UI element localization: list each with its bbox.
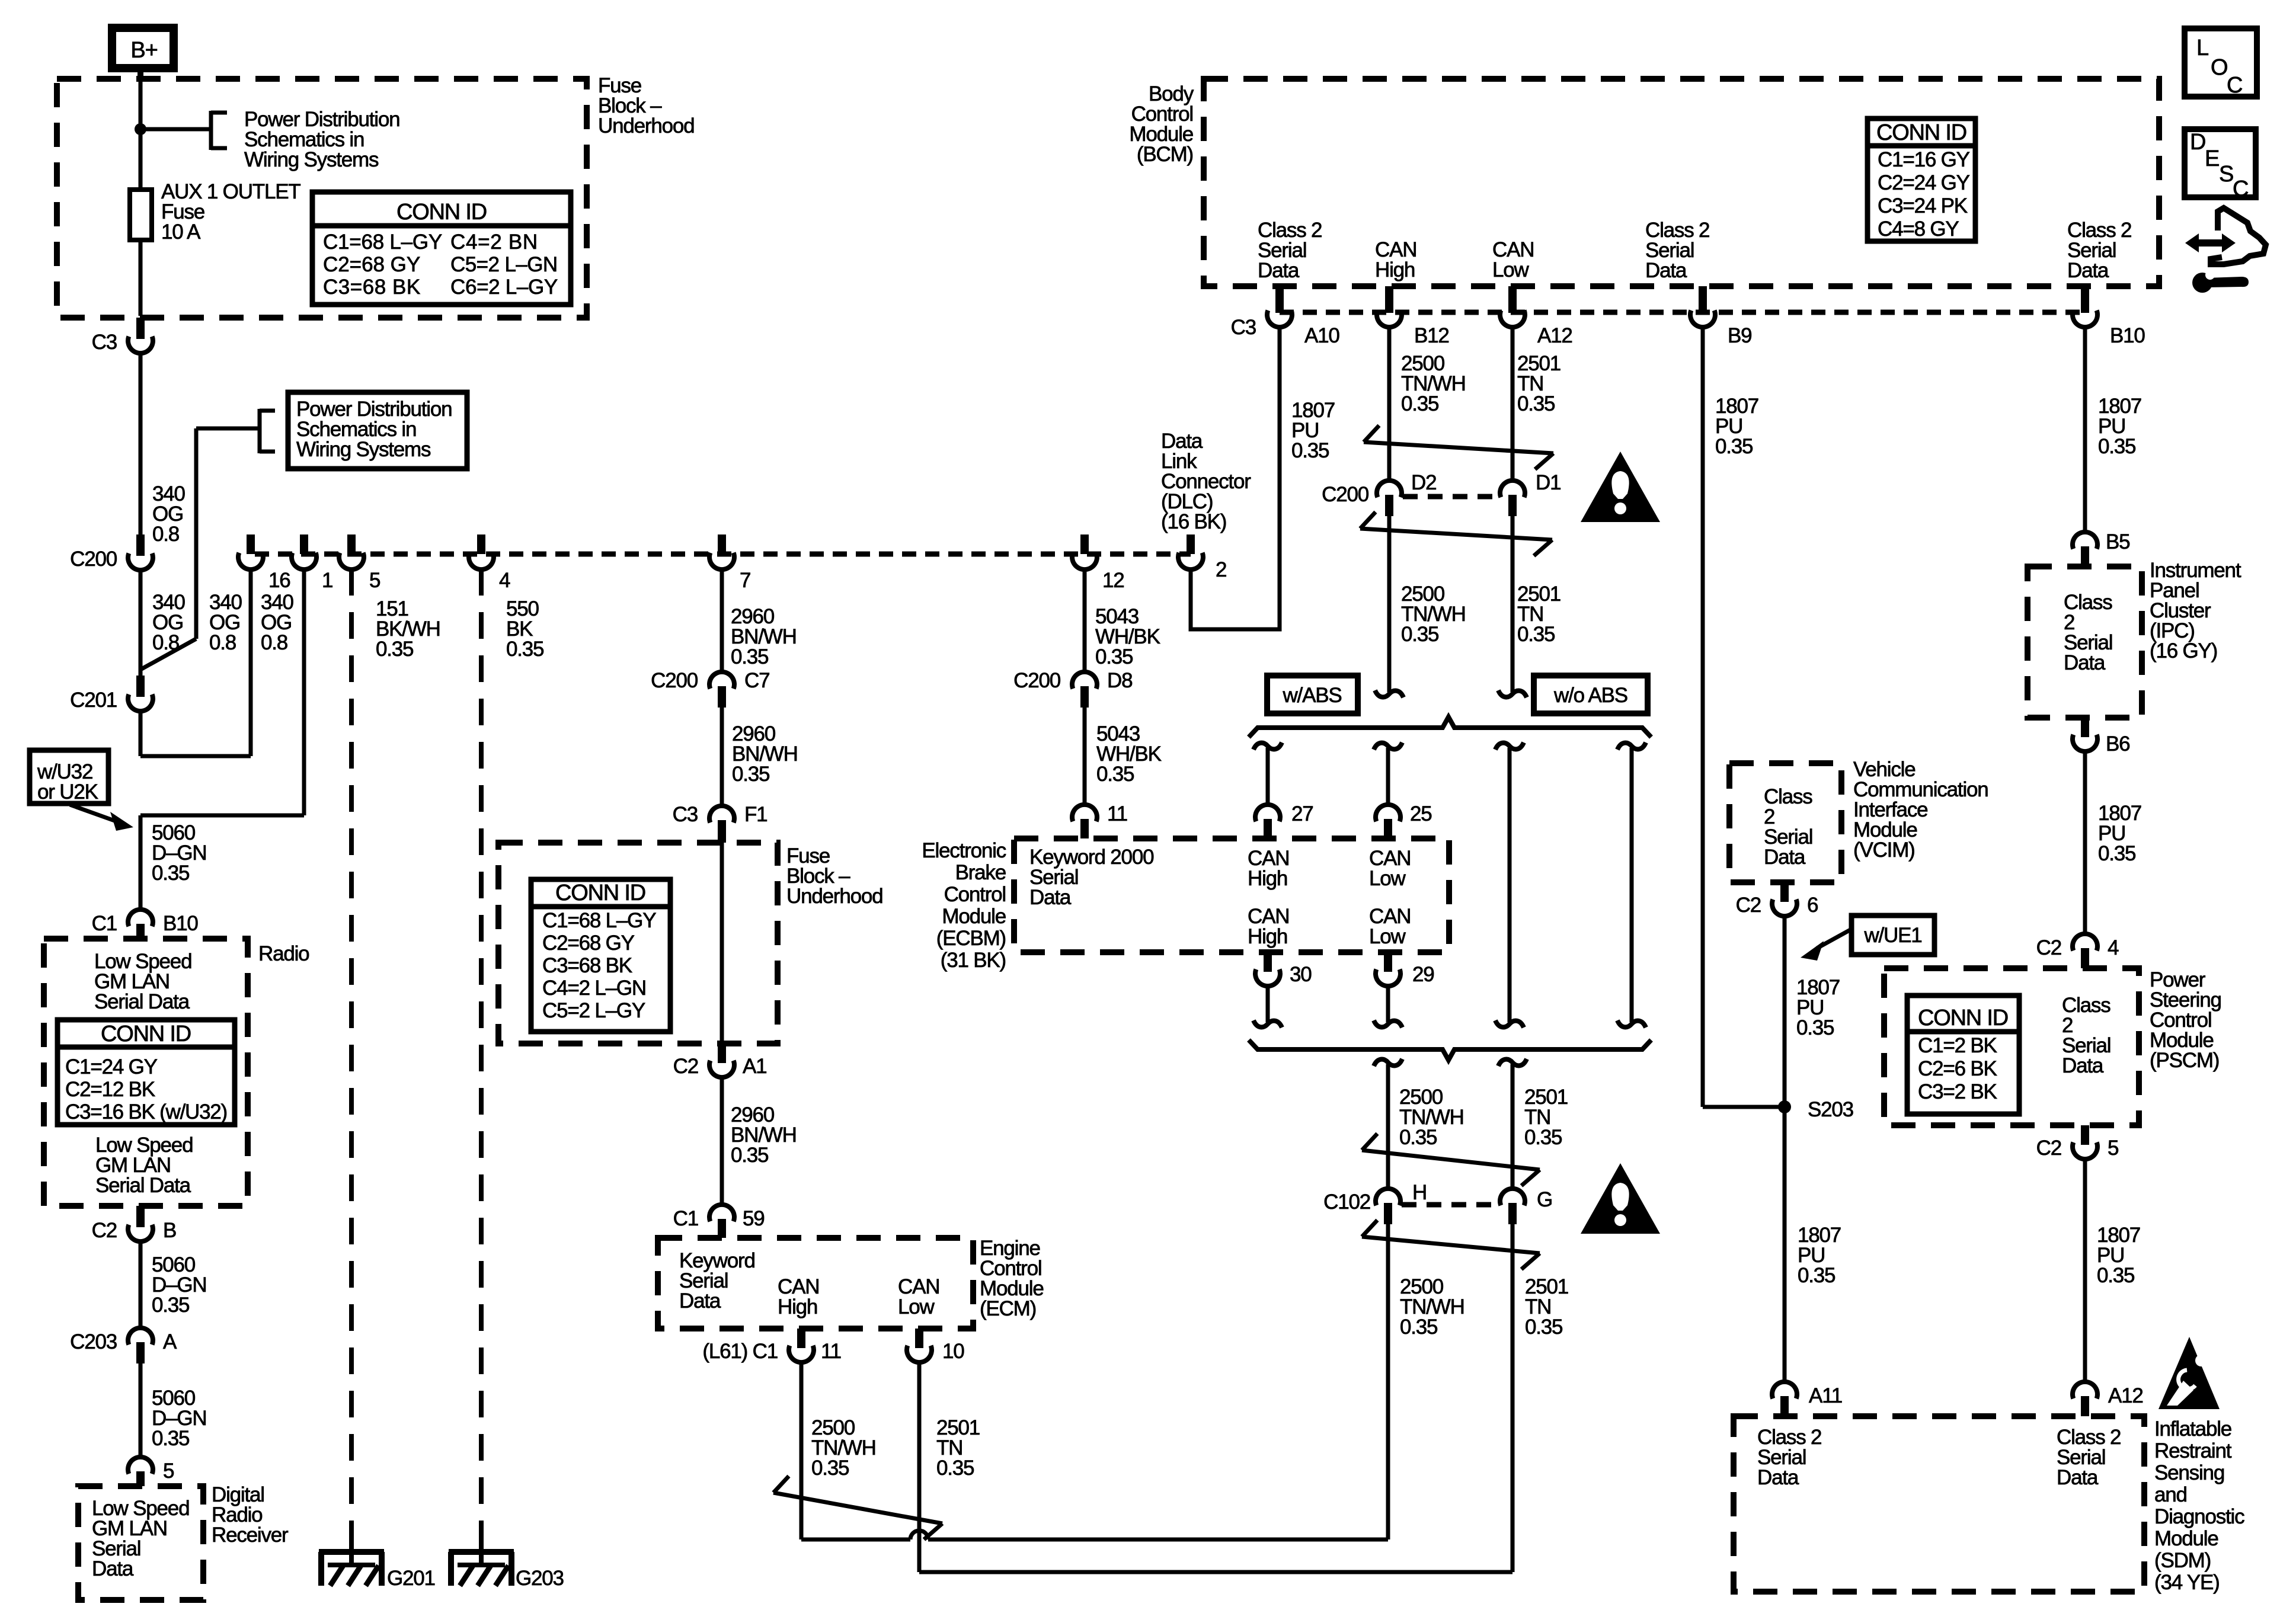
svg-text:0.35: 0.35 [152, 862, 189, 885]
svg-text:B5: B5 [2106, 530, 2129, 553]
svg-text:C102: C102 [1323, 1190, 1370, 1214]
svg-text:B12: B12 [1414, 324, 1449, 347]
svg-text:(ECM): (ECM) [980, 1297, 1036, 1320]
svg-text:30: 30 [1290, 963, 1312, 986]
svg-text:16: 16 [268, 569, 290, 592]
svg-text:(L61) C1: (L61) C1 [702, 1340, 778, 1363]
svg-text:C2: C2 [673, 1055, 698, 1078]
svg-text:D1: D1 [1536, 471, 1560, 494]
svg-text:Serial Data: Serial Data [94, 990, 190, 1013]
svg-text:Data: Data [1757, 1466, 1799, 1489]
svg-text:C1=24 GY: C1=24 GY [65, 1055, 158, 1078]
svg-text:0.35: 0.35 [811, 1457, 849, 1480]
svg-text:59: 59 [743, 1207, 765, 1230]
svg-text:0.35: 0.35 [1096, 763, 1134, 786]
svg-text:High: High [1375, 258, 1415, 281]
svg-text:or U2K: or U2K [37, 780, 98, 804]
svg-text:1: 1 [322, 569, 332, 592]
svg-text:High: High [1248, 925, 1287, 948]
svg-text:C3=68 BK: C3=68 BK [542, 954, 632, 977]
svg-text:C5=2 L–GY: C5=2 L–GY [542, 999, 645, 1022]
svg-text:G203: G203 [516, 1567, 564, 1590]
svg-text:0.35: 0.35 [2098, 842, 2135, 865]
svg-text:Control: Control [944, 883, 1006, 906]
svg-text:11: 11 [1107, 802, 1127, 825]
svg-text:(VCIM): (VCIM) [1853, 838, 1915, 862]
svg-text:C1: C1 [673, 1207, 698, 1230]
svg-text:4: 4 [2108, 936, 2119, 959]
svg-text:Inflatable: Inflatable [2154, 1417, 2231, 1441]
svg-text:C3: C3 [673, 803, 698, 826]
svg-text:S203: S203 [1808, 1098, 1853, 1121]
svg-text:C200: C200 [70, 548, 117, 571]
svg-text:C200: C200 [1013, 669, 1061, 692]
svg-text:0.35: 0.35 [1517, 623, 1555, 646]
svg-text:10: 10 [942, 1340, 964, 1363]
svg-text:C6=2 L–GY: C6=2 L–GY [450, 276, 558, 299]
svg-text:Receiver: Receiver [212, 1523, 289, 1547]
svg-text:(16 BK): (16 BK) [1161, 510, 1226, 533]
svg-text:C2=68 GY: C2=68 GY [542, 932, 635, 955]
svg-text:C4=2 L–GN: C4=2 L–GN [542, 977, 646, 1000]
svg-text:Data: Data [2067, 259, 2109, 282]
svg-text:Data: Data [2064, 651, 2106, 674]
svg-text:0.8: 0.8 [152, 631, 179, 654]
svg-text:S: S [2219, 162, 2233, 187]
svg-text:Module: Module [942, 905, 1006, 928]
svg-text:and: and [2154, 1483, 2187, 1506]
svg-text:(SDM): (SDM) [2154, 1549, 2211, 1572]
svg-text:A12: A12 [2108, 1384, 2143, 1407]
svg-text:A11: A11 [1809, 1384, 1842, 1407]
svg-text:Diagnostic: Diagnostic [2154, 1505, 2244, 1528]
svg-text:C2: C2 [2036, 1137, 2061, 1160]
svg-text:0.35: 0.35 [506, 638, 543, 661]
svg-text:C203: C203 [70, 1330, 117, 1353]
svg-text:w/ABS: w/ABS [1282, 684, 1341, 707]
svg-text:Data: Data [1764, 846, 1806, 869]
svg-text:0.35: 0.35 [152, 1427, 189, 1450]
svg-text:B+: B+ [130, 38, 157, 63]
svg-text:(PSCM): (PSCM) [2150, 1049, 2219, 1072]
svg-text:C3=2 BK: C3=2 BK [1918, 1080, 1997, 1103]
svg-text:Serial Data: Serial Data [95, 1174, 191, 1197]
svg-text:2: 2 [1216, 558, 1226, 581]
svg-text:0.8: 0.8 [152, 523, 179, 546]
svg-text:0.8: 0.8 [261, 631, 287, 654]
svg-text:0.35: 0.35 [1291, 439, 1329, 462]
svg-text:C1: C1 [92, 912, 117, 935]
svg-text:CONN ID: CONN ID [101, 1022, 191, 1046]
svg-text:C2=12 BK: C2=12 BK [65, 1078, 155, 1101]
svg-text:0.35: 0.35 [1796, 1016, 1834, 1039]
svg-text:11: 11 [821, 1340, 841, 1363]
svg-text:0.35: 0.35 [2097, 1264, 2134, 1287]
svg-text:L: L [2196, 36, 2208, 60]
svg-text:Low: Low [898, 1295, 935, 1318]
svg-text:6: 6 [1807, 894, 1818, 917]
svg-text:H: H [1412, 1181, 1427, 1204]
svg-text:D2: D2 [1411, 471, 1436, 494]
svg-text:C2: C2 [2036, 936, 2061, 959]
svg-text:Wiring Systems: Wiring Systems [296, 438, 431, 461]
svg-text:A: A [163, 1330, 177, 1353]
svg-text:0.35: 0.35 [152, 1294, 189, 1317]
svg-text:29: 29 [1412, 963, 1434, 986]
svg-text:Radio: Radio [258, 942, 309, 965]
svg-text:C3=24 PK: C3=24 PK [1878, 194, 1968, 217]
svg-text:0.35: 0.35 [1715, 435, 1753, 458]
svg-text:C4=8 GY: C4=8 GY [1878, 217, 1959, 241]
svg-text:D: D [2190, 130, 2205, 155]
svg-text:G201: G201 [387, 1567, 435, 1590]
svg-text:0.35: 0.35 [1401, 623, 1438, 646]
svg-text:0.8: 0.8 [209, 631, 236, 654]
svg-text:Wiring Systems: Wiring Systems [244, 148, 379, 171]
svg-text:B: B [163, 1219, 176, 1242]
svg-text:0.35: 0.35 [1524, 1126, 1562, 1149]
svg-text:0.35: 0.35 [1798, 1264, 1835, 1287]
svg-text:CONN ID: CONN ID [555, 881, 645, 905]
svg-text:Brake: Brake [955, 861, 1006, 884]
svg-text:Data: Data [1258, 259, 1300, 282]
svg-text:C2=24 GY: C2=24 GY [1878, 171, 1970, 194]
svg-text:CONN ID: CONN ID [1918, 1006, 2008, 1030]
svg-text:B10: B10 [2110, 324, 2145, 347]
svg-text:0.35: 0.35 [2098, 435, 2135, 458]
svg-text:0.35: 0.35 [936, 1457, 974, 1480]
svg-text:w/UE1: w/UE1 [1863, 924, 1921, 947]
svg-text:Module: Module [2154, 1527, 2218, 1550]
svg-text:C2=6 BK: C2=6 BK [1918, 1057, 1997, 1080]
svg-text:0.35: 0.35 [1525, 1315, 1562, 1339]
svg-text:C5=2 L–GN: C5=2 L–GN [450, 253, 557, 276]
svg-text:12: 12 [1102, 569, 1124, 592]
svg-text:Data: Data [1645, 259, 1687, 282]
svg-text:C1=68 L–GY: C1=68 L–GY [542, 909, 656, 932]
svg-text:Sensing: Sensing [2154, 1461, 2224, 1484]
svg-text:CONN ID: CONN ID [1876, 120, 1966, 145]
svg-text:0.35: 0.35 [1400, 1315, 1437, 1339]
svg-text:0.35: 0.35 [731, 645, 768, 668]
svg-text:C: C [2233, 177, 2248, 201]
svg-text:5: 5 [2108, 1137, 2118, 1160]
svg-text:C2: C2 [1736, 894, 1761, 917]
svg-text:27: 27 [1291, 802, 1313, 825]
svg-text:Data: Data [2062, 1054, 2104, 1077]
svg-text:C200: C200 [1322, 483, 1369, 506]
svg-text:(34 YE): (34 YE) [2154, 1571, 2220, 1594]
svg-text:7: 7 [740, 569, 750, 592]
svg-text:4: 4 [499, 569, 510, 592]
svg-text:Electronic: Electronic [922, 839, 1006, 862]
svg-text:E: E [2205, 146, 2219, 171]
svg-text:A1: A1 [743, 1055, 766, 1078]
svg-text:C201: C201 [70, 689, 117, 712]
svg-text:Underhood: Underhood [598, 114, 694, 137]
svg-text:C4=2 BN: C4=2 BN [450, 231, 537, 254]
svg-text:25: 25 [1410, 802, 1432, 825]
svg-text:Data: Data [2057, 1466, 2099, 1489]
svg-text:C1=68 L–GY: C1=68 L–GY [323, 231, 442, 254]
svg-text:B6: B6 [2106, 732, 2129, 756]
svg-text:D8: D8 [1107, 669, 1132, 692]
svg-text:Low: Low [1369, 867, 1406, 890]
svg-text:(31 BK): (31 BK) [941, 949, 1006, 972]
svg-text:High: High [778, 1295, 817, 1318]
svg-text:(16 GY): (16 GY) [2150, 639, 2217, 662]
svg-text:A12: A12 [1537, 324, 1572, 347]
svg-text:0.35: 0.35 [1399, 1126, 1437, 1149]
svg-text:C1=2 BK: C1=2 BK [1918, 1034, 1997, 1057]
svg-text:0.35: 0.35 [732, 763, 769, 786]
svg-text:C7: C7 [744, 669, 769, 692]
svg-text:0.35: 0.35 [1401, 392, 1438, 415]
svg-text:w/o ABS: w/o ABS [1553, 684, 1627, 707]
svg-text:Data: Data [92, 1557, 134, 1580]
svg-text:0.35: 0.35 [376, 638, 413, 661]
svg-text:(BCM): (BCM) [1137, 143, 1193, 166]
svg-text:F1: F1 [744, 803, 767, 826]
svg-text:B10: B10 [163, 912, 198, 935]
svg-text:0.35: 0.35 [731, 1144, 768, 1167]
svg-text:C3=16 BK (w/U32): C3=16 BK (w/U32) [65, 1100, 227, 1124]
svg-text:Underhood: Underhood [786, 885, 882, 908]
svg-text:O: O [2211, 55, 2227, 80]
svg-text:10 A: 10 A [161, 220, 201, 244]
svg-text:G: G [1537, 1188, 1552, 1211]
svg-text:C3: C3 [92, 331, 117, 354]
svg-text:B9: B9 [1728, 324, 1751, 347]
svg-text:Data: Data [679, 1289, 721, 1313]
svg-text:C1=16 GY: C1=16 GY [1878, 148, 1970, 171]
svg-text:C: C [2227, 73, 2242, 98]
svg-text:A10: A10 [1304, 324, 1339, 347]
svg-text:C2=68 GY: C2=68 GY [323, 253, 420, 276]
svg-text:(ECBM): (ECBM) [936, 927, 1006, 950]
svg-text:Data: Data [1029, 886, 1072, 909]
svg-text:C2: C2 [92, 1219, 117, 1242]
svg-text:Low: Low [1369, 925, 1406, 948]
svg-text:C3: C3 [1231, 316, 1256, 339]
svg-text:0.35: 0.35 [1517, 392, 1555, 415]
svg-text:C200: C200 [651, 669, 698, 692]
svg-text:High: High [1248, 867, 1287, 890]
svg-text:5: 5 [163, 1459, 174, 1483]
svg-text:Restraint: Restraint [2154, 1439, 2232, 1462]
svg-text:5: 5 [369, 569, 380, 592]
svg-text:CONN ID: CONN ID [396, 200, 487, 225]
svg-text:0.35: 0.35 [1095, 645, 1133, 668]
svg-text:Low: Low [1492, 258, 1530, 281]
